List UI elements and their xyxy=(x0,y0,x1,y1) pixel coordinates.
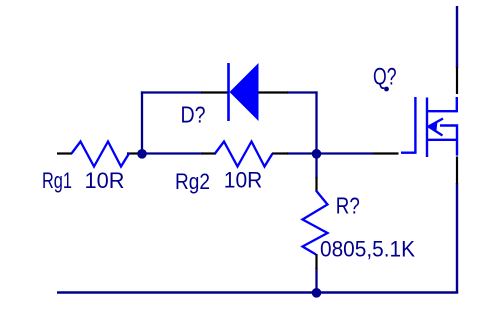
Q? anchor dot xyxy=(384,87,389,92)
svg-text:D?: D? xyxy=(181,102,206,128)
svg-text:R?: R? xyxy=(336,193,360,219)
wire: right vertical bottom (source net to rail) xyxy=(456,183,458,293)
transistor Q? bulk arrow xyxy=(429,119,444,127)
resistor Rg2 left pin xyxy=(202,152,216,154)
resistor Rg1 right pin xyxy=(127,152,141,154)
transistor Q? bulk line xyxy=(440,126,457,156)
diode D? right pin (from anode) xyxy=(258,91,288,93)
svg-text:10R: 10R xyxy=(224,168,262,193)
transistor Q? drain lead xyxy=(427,97,457,111)
resistor Rg1 left pin xyxy=(57,152,72,154)
resistor Rg1 body xyxy=(72,142,130,167)
resistor R? top pin xyxy=(315,177,317,191)
transistor Q? gate bar xyxy=(414,97,416,154)
svg-text:0805,5.1K: 0805,5.1K xyxy=(320,237,415,262)
resistor Rg2 body xyxy=(215,142,273,167)
svg-text:Rg2: Rg2 xyxy=(175,169,210,194)
diode D? cathode bar xyxy=(227,63,230,121)
wire: junction B down to R? top pin xyxy=(315,154,317,179)
wire: diode branch right vertical down to junction B xyxy=(315,91,317,154)
wire: junction B to gate pin xyxy=(316,152,373,154)
diode D? anode triangle xyxy=(230,63,259,121)
node C junction dot (bottom rail) xyxy=(312,288,322,298)
wire: diode branch top right horizontal xyxy=(287,91,318,93)
svg-text:Rg1: Rg1 xyxy=(42,168,72,193)
svg-text:10R: 10R xyxy=(85,168,125,193)
svg-text:Q?: Q? xyxy=(373,63,397,90)
transistor Q? gate pin xyxy=(373,152,399,154)
wire: R? bottom pin to bottom rail xyxy=(315,268,317,293)
diode D? left pin (to cathode bar) xyxy=(201,91,229,93)
transistor Q? gate lead xyxy=(401,151,415,153)
resistor R? body (vertical) xyxy=(303,191,328,255)
transistor Q? source pin xyxy=(456,157,458,185)
resistor R? bottom pin xyxy=(315,254,317,269)
wire: node A up to diode branch xyxy=(141,91,143,154)
transistor Q? drain pin xyxy=(456,67,458,94)
resistor Rg2 right pin xyxy=(272,152,288,154)
node A junction dot xyxy=(137,149,147,159)
wire: main horizontal left-mid (node A to Rg2) xyxy=(141,152,203,154)
node B junction dot xyxy=(312,149,322,159)
transistor Q? channel bar xyxy=(426,98,428,158)
wire: Rg2 right to junction B xyxy=(287,152,317,154)
wire: right vertical top (drain net) xyxy=(456,6,458,68)
wire: bottom rail xyxy=(57,291,458,294)
transistor Q? source lead xyxy=(426,139,458,141)
wire: diode branch top left horizontal xyxy=(141,91,202,93)
